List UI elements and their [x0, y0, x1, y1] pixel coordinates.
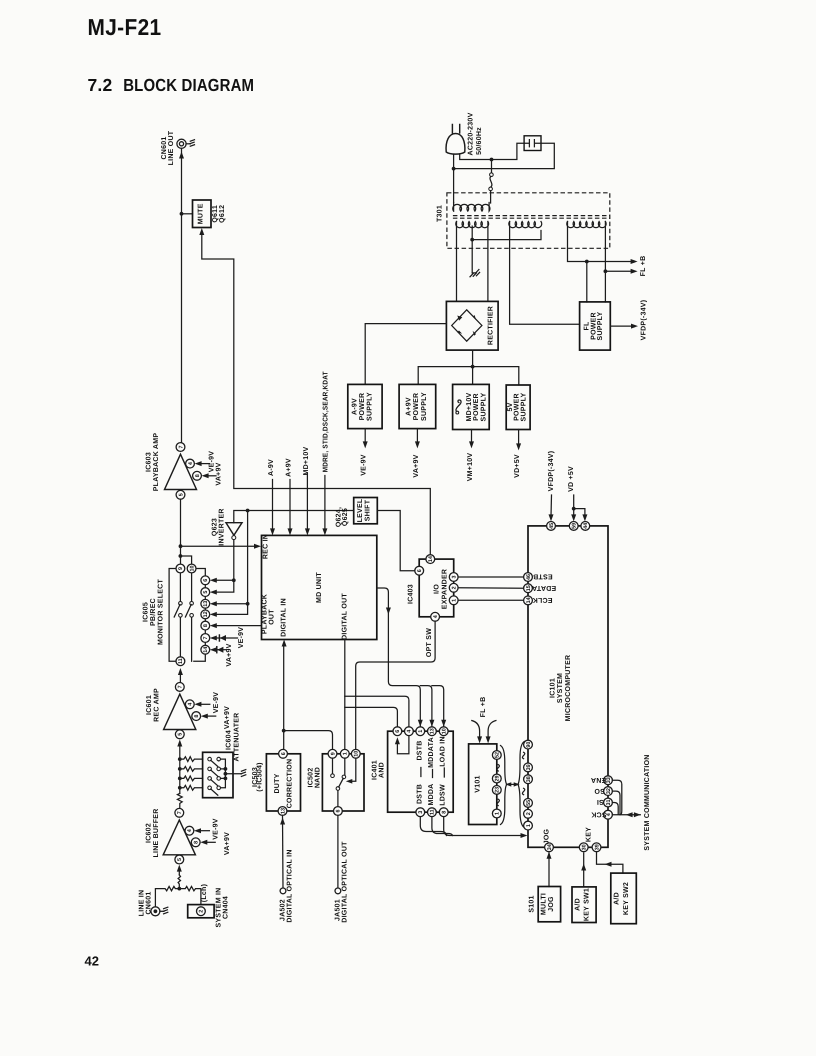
- pin 31 SI: [597, 798, 613, 807]
- wire IC601 out to pin11: [179, 672, 181, 683]
- pin 4 of IC401: [405, 727, 414, 736]
- pin 3 of IC401: [416, 808, 425, 817]
- pin 6 of IC401: [393, 727, 402, 736]
- A+9V power supply box: [399, 384, 436, 428]
- svg-text:39: 39: [594, 844, 600, 850]
- svg-text:2: 2: [452, 586, 458, 589]
- svg-text:23: 23: [495, 787, 501, 793]
- wire pin8 to IC101 key bus: [444, 817, 523, 836]
- svg-text:5: 5: [203, 591, 209, 594]
- wire digital in from IC503 pin6: [283, 645, 285, 749]
- wire IC605 right bracket: [180, 569, 205, 662]
- svg-text:2: 2: [526, 812, 532, 815]
- wire digital out branch to IC401 pin4: [345, 696, 409, 727]
- wire A/D key sw2 to pin39: [597, 852, 623, 873]
- ground (line in): [163, 907, 168, 914]
- resistor R to line-in connector: [155, 886, 179, 906]
- svg-text:DUTY: DUTY: [274, 773, 281, 793]
- pin 6 of IC503: [279, 749, 288, 758]
- wire VD+5V into pins 59,44: [568, 466, 587, 521]
- svg-text:A+9V: A+9V: [406, 397, 413, 416]
- svg-text:SUPPLY: SUPPLY: [520, 392, 527, 421]
- wire pin3 to IC101 key bus: [420, 817, 446, 836]
- arrow output VA+9V: [416, 429, 418, 443]
- wire pin33 bundle: [612, 780, 621, 815]
- svg-text:KEY SW1: KEY SW1: [583, 888, 590, 921]
- attenuator tap nodes: [178, 757, 182, 790]
- svg-text:BLOCK DIAGRAM: BLOCK DIAGRAM: [123, 75, 254, 95]
- svg-text:2: 2: [199, 910, 205, 913]
- pin 10 of IC401: [439, 727, 448, 736]
- svg-text:JA501: JA501: [334, 899, 341, 921]
- switch SW-A of IC605: [174, 602, 182, 618]
- label IC502 NAND: [308, 767, 322, 788]
- svg-text:MD UNIT: MD UNIT: [316, 572, 323, 603]
- svg-text:Q625: Q625: [342, 508, 349, 526]
- wire monitor line to pins 13,12: [214, 511, 248, 615]
- connector CN601 LINE IN: [151, 907, 164, 916]
- wire digital out branch to IC401 pin6: [345, 707, 398, 726]
- dash links: [421, 768, 444, 778]
- svg-text:32: 32: [606, 788, 612, 794]
- svg-text:Q611: Q611: [212, 205, 219, 223]
- svg-text:8: 8: [193, 841, 199, 844]
- wire VA+9V into pin8: [205, 475, 216, 477]
- svg-text:7: 7: [178, 446, 184, 449]
- pin 44 of IC101: [581, 522, 590, 531]
- pin 34 JOG: [544, 828, 554, 851]
- svg-text:8: 8: [195, 474, 201, 477]
- svg-text:EXPANDER: EXPANDER: [442, 569, 449, 609]
- wire MDRE bus into MD: [324, 476, 326, 531]
- svg-text:9: 9: [330, 752, 336, 755]
- wire JA502 to pin13: [282, 815, 285, 888]
- svg-text:MJ-F21: MJ-F21: [88, 14, 162, 40]
- pin 3 of IC403: [449, 573, 458, 582]
- resistor R row1: [180, 757, 203, 762]
- svg-text:6: 6: [281, 752, 287, 755]
- svg-text:IC602: IC602: [146, 823, 153, 843]
- pin 6 of IC502: [334, 807, 343, 816]
- pin 5 of IC605: [201, 588, 210, 597]
- svg-text:52: 52: [495, 752, 501, 758]
- node inverter/monitor branch: [246, 509, 250, 513]
- arrow output VM+10V: [471, 430, 473, 444]
- diode D pin14 VA+9V: [210, 643, 233, 666]
- wire pin11 to IC101 key bus: [432, 817, 453, 836]
- svg-text:VA+9V: VA+9V: [216, 462, 223, 485]
- switches inside IC604: [208, 757, 221, 795]
- svg-text:ATTENUATER: ATTENUATER: [233, 713, 240, 762]
- svg-text:SHIFT: SHIFT: [365, 499, 372, 521]
- wire VE-9V into IC601 pin4: [198, 703, 210, 705]
- resistor R to system-in: [179, 886, 201, 904]
- rectifier box: [446, 301, 498, 350]
- wire VA+9V into IC602 pin8: [204, 841, 216, 843]
- label DUTY CORRECTION: [274, 759, 294, 809]
- svg-text:VA+9V: VA+9V: [226, 643, 233, 666]
- svg-text:FL +B: FL +B: [640, 256, 647, 277]
- svg-text:VD +5V: VD +5V: [568, 466, 575, 492]
- svg-text:VA+9V: VA+9V: [413, 454, 420, 477]
- svg-text:45: 45: [549, 523, 555, 529]
- secondary winding S2: [509, 222, 542, 228]
- svg-text:LEVEL: LEVEL: [357, 498, 364, 522]
- svg-text:42: 42: [85, 953, 99, 968]
- svg-text:DIGITAL IN: DIGITAL IN: [281, 598, 288, 637]
- svg-text:SUPPLY: SUPPLY: [421, 392, 428, 421]
- svg-text:OUT: OUT: [268, 609, 275, 625]
- rectifier bridge diamond: [452, 310, 482, 341]
- pin 8 of IC605: [201, 621, 210, 630]
- node pin10 branch: [179, 554, 192, 564]
- wire plug right to fuse loop: [454, 143, 555, 168]
- wire switch commons to ground bus: [221, 759, 242, 788]
- svg-text:7: 7: [177, 811, 183, 814]
- IC401 AND box: [388, 731, 454, 812]
- svg-text:VFDP(-34V): VFDP(-34V): [547, 451, 555, 492]
- svg-text:14: 14: [203, 647, 209, 653]
- pin 10 of IC605: [187, 564, 196, 573]
- wire plug left to primary: [453, 155, 455, 203]
- pin 10 of IC502: [351, 749, 360, 758]
- svg-text:MUTE: MUTE: [198, 203, 205, 224]
- svg-text:38: 38: [526, 776, 532, 782]
- tilde V101 lower: [497, 799, 499, 805]
- wire MD digital out down to IC502 pin1: [344, 640, 346, 750]
- svg-text:1: 1: [495, 812, 501, 815]
- svg-text:ECLK: ECLK: [532, 596, 552, 603]
- pin 32 SO: [594, 787, 613, 796]
- svg-text:4: 4: [407, 730, 413, 733]
- svg-text:90: 90: [526, 742, 532, 748]
- svg-text:MDDATA: MDDATA: [428, 737, 435, 768]
- connector CN601 LINE OUT: [177, 139, 190, 148]
- wire inverter output to pins 6,5: [214, 540, 234, 593]
- svg-text:REC IN: REC IN: [262, 534, 269, 559]
- resistor R row2: [180, 767, 203, 772]
- label IC601 REC AMP: [146, 688, 161, 722]
- wire pin32 bundle: [612, 791, 620, 814]
- svg-text:7: 7: [178, 685, 184, 688]
- svg-text:MD+10V: MD+10V: [466, 392, 473, 421]
- svg-text:CN601: CN601: [146, 891, 153, 914]
- wire A+9V into MD: [289, 480, 291, 531]
- label Q611 Q612: [212, 205, 226, 223]
- label IC604 ATTENUATER: [225, 713, 240, 762]
- svg-text:7: 7: [203, 637, 209, 640]
- IC503 duty correction box: [266, 754, 300, 811]
- pin 14 ECLK: [524, 596, 553, 605]
- svg-text:AND: AND: [378, 762, 385, 778]
- wire VE-9V into IC602 pin4: [197, 830, 209, 832]
- pin 29 of V101: [492, 774, 501, 783]
- pin 15 EDATA: [524, 584, 557, 593]
- svg-text:IC403: IC403: [408, 584, 415, 604]
- label JA502 DIGITAL OPTICAL IN: [279, 849, 293, 922]
- wire MD right edge to IC401 pins bus: [377, 588, 421, 727]
- wire rectifier left output to A-9V supply: [365, 324, 446, 385]
- arrow output VD+5V: [518, 430, 520, 446]
- svg-text:DIGITAL OUT: DIGITAL OUT: [342, 593, 349, 640]
- svg-text:30: 30: [582, 844, 588, 850]
- label IC603 PLAYBACK AMP: [146, 433, 161, 492]
- wire pin31 bundle: [612, 803, 618, 815]
- pin 38 of IC101: [524, 775, 533, 784]
- pin 39 KEY2: [592, 843, 601, 852]
- wire pin4 loop into pin6: [397, 736, 409, 754]
- pin 9 of IC605: [176, 564, 185, 573]
- svg-text:MD+10V: MD+10V: [303, 446, 310, 475]
- node rec in tap: [179, 544, 183, 548]
- svg-text:CORRECTION: CORRECTION: [286, 759, 293, 809]
- svg-text:4: 4: [188, 703, 194, 706]
- svg-text:IC604: IC604: [225, 730, 232, 750]
- svg-text:5: 5: [178, 733, 184, 736]
- svg-text:SUPPLY: SUPPLY: [480, 392, 487, 421]
- wire pin5 down to rec-in node: [180, 499, 182, 568]
- switch inside IC502: [331, 758, 356, 806]
- wire playback out from MD to pin8: [214, 625, 262, 627]
- label FL+B into V101: [472, 697, 496, 744]
- wire VE-9V into pin4: [198, 463, 210, 465]
- svg-text:14: 14: [526, 597, 532, 603]
- svg-text:Q623: Q623: [212, 518, 219, 536]
- svg-text:RECTIFIER: RECTIFIER: [488, 306, 495, 345]
- pin 45 of IC101: [547, 522, 556, 531]
- svg-text:AC220-230V: AC220-230V: [468, 112, 475, 155]
- node S3 right to FL supply input2: [604, 269, 608, 273]
- wire VFDP(-34V) into pin45: [547, 451, 555, 522]
- svg-text:13: 13: [203, 601, 209, 607]
- svg-text:A+9V: A+9V: [286, 458, 293, 477]
- svg-text:DIGITAL OPTICAL IN: DIGITAL OPTICAL IN: [286, 849, 293, 922]
- wire S3 left to FL+B arrow: [568, 222, 634, 262]
- svg-text:8: 8: [203, 624, 209, 627]
- pin 2 of IC403: [449, 583, 458, 592]
- svg-text:(+IC504): (+IC504): [255, 762, 263, 791]
- wire pin6 to JA501: [337, 815, 339, 888]
- resistor R row4: [180, 785, 203, 790]
- svg-text:DSTB: DSTB: [416, 740, 423, 760]
- arrow into mute box: [199, 228, 204, 235]
- level shift box Q624 Q625: [354, 498, 378, 524]
- svg-text:SUPPLY: SUPPLY: [367, 392, 374, 421]
- node S3 to FL supply input1: [585, 260, 589, 264]
- svg-text:5: 5: [178, 493, 184, 496]
- svg-text:LINE OUT: LINE OUT: [168, 130, 175, 165]
- svg-text:POWER: POWER: [359, 393, 366, 421]
- svg-text:4: 4: [433, 615, 439, 618]
- svg-text:50/60Hz: 50/60Hz: [475, 127, 483, 155]
- wire VA+9V into IC601 pin8: [204, 715, 216, 717]
- label IC605 PB/REC MONITOR SELECT: [143, 579, 165, 645]
- pin 90 of IC101: [524, 740, 533, 749]
- pin 8 of IC401: [439, 808, 448, 817]
- op-amp IC602 line buffer: [163, 808, 200, 864]
- svg-text:REC AMP: REC AMP: [154, 688, 161, 722]
- tilde IC101 upper: [522, 752, 524, 758]
- tilde IC101 lower: [522, 788, 524, 794]
- wire S1 tap to S2 right: [472, 231, 541, 240]
- secondary winding S3: [567, 222, 606, 228]
- label LINE IN CN601: [139, 890, 153, 917]
- pin 11 of IC401: [428, 808, 437, 817]
- box A/D KEY SW1: [572, 887, 596, 923]
- pin 2 of IC101: [524, 809, 533, 818]
- svg-text:VE-9V: VE-9V: [213, 692, 220, 714]
- wire S101 multi jog to pin34: [548, 853, 550, 887]
- svg-text:MICROCOMPUTER: MICROCOMPUTER: [565, 655, 572, 722]
- svg-text:JA502: JA502: [279, 899, 286, 921]
- mute box Q611 Q612: [193, 200, 212, 228]
- label PLAYBACK OUT: [262, 594, 276, 634]
- svg-text:44: 44: [583, 523, 589, 529]
- pin 9 of IC502: [328, 749, 337, 758]
- wire A/D key sw1 to pin30: [583, 853, 585, 887]
- svg-text:IC101: IC101: [550, 678, 557, 698]
- svg-text:VA+9V: VA+9V: [224, 832, 231, 855]
- V101 display box: [469, 744, 497, 825]
- svg-text:DIGITAL OPTICAL OUT: DIGITAL OPTICAL OUT: [341, 841, 348, 923]
- MD+10V power supply box: [453, 384, 490, 429]
- svg-text:S101: S101: [528, 895, 535, 912]
- svg-text:31: 31: [606, 800, 612, 806]
- attenuator IC604 box: [203, 752, 233, 797]
- pin 33 ENA: [591, 776, 613, 785]
- pin 23 of V101: [492, 786, 501, 795]
- pin 55 of IC101: [524, 799, 533, 808]
- node mute branch: [180, 212, 184, 216]
- svg-text:1: 1: [418, 730, 424, 733]
- wire A-9V into MD: [272, 480, 274, 531]
- svg-text:INVERTER: INVERTER: [219, 508, 226, 545]
- wire branch to IC502 pin9: [284, 731, 333, 750]
- svg-text:VA+9V: VA+9V: [224, 706, 231, 729]
- svg-text:11: 11: [178, 658, 184, 664]
- svg-text:JOG: JOG: [548, 896, 555, 912]
- pin 39 of IC101 left: [524, 763, 533, 772]
- svg-text:V101: V101: [475, 775, 482, 792]
- svg-text:IC502: IC502: [308, 768, 315, 788]
- svg-text:SCK: SCK: [591, 810, 607, 817]
- node rectifier output bus: [471, 365, 475, 369]
- arrow system comm right: [634, 812, 641, 817]
- svg-text:FL +B: FL +B: [480, 697, 487, 718]
- svg-text:VE-9V: VE-9V: [238, 627, 245, 649]
- svg-text:T301: T301: [437, 205, 444, 222]
- ground (line out): [190, 140, 195, 147]
- connector JA502: [280, 888, 286, 894]
- 5V power supply box: [506, 385, 530, 430]
- svg-text:6: 6: [417, 569, 423, 572]
- AC plug: [446, 125, 465, 155]
- label CN601 LINE OUT: [161, 130, 175, 165]
- pin 14 of IC403: [426, 555, 435, 564]
- node line in junction: [177, 887, 181, 891]
- svg-text:ESTB: ESTB: [533, 573, 553, 580]
- svg-text:KEY SW2: KEY SW2: [623, 882, 630, 915]
- wire to mute box: [182, 213, 193, 215]
- node plug-left / fuse return junction: [452, 167, 456, 171]
- A-9V power supply box: [348, 384, 382, 428]
- svg-text:55: 55: [526, 800, 532, 806]
- svg-text:8: 8: [194, 715, 200, 718]
- wire inverter input from level shift line: [234, 511, 354, 523]
- wire SCK system communication: [612, 814, 640, 816]
- bus link V101 to IC101: [508, 783, 517, 785]
- svg-text:9: 9: [178, 567, 184, 570]
- node plug-right junction: [490, 158, 494, 162]
- svg-text:JOG: JOG: [544, 828, 551, 844]
- svg-text:59: 59: [572, 523, 578, 529]
- svg-text:8: 8: [442, 811, 448, 814]
- svg-text:6: 6: [336, 810, 342, 813]
- pin 1 of V101: [492, 809, 501, 818]
- svg-text:DSTB: DSTB: [416, 784, 423, 804]
- switch SW-B of IC605: [185, 602, 193, 618]
- svg-text:VFDP(-34V): VFDP(-34V): [640, 300, 648, 341]
- pin 59 of IC101: [569, 522, 578, 531]
- inverter Q623: [226, 523, 242, 540]
- svg-text:KEY: KEY: [585, 827, 592, 842]
- label IC401 AND: [372, 760, 386, 780]
- svg-text:12: 12: [203, 611, 209, 617]
- pin 30 KEY: [579, 827, 592, 852]
- pin 13 of IC503: [278, 807, 287, 816]
- svg-text:ENA: ENA: [591, 776, 607, 783]
- svg-text:SYSTEM IN: SYSTEM IN: [215, 888, 222, 928]
- arrow system comm left: [626, 812, 633, 817]
- wire MD+10V into MD: [306, 474, 308, 531]
- label AC220-230V 50/60Hz: [468, 112, 484, 155]
- svg-text:SUPPLY: SUPPLY: [597, 311, 604, 340]
- connector JA501: [335, 888, 341, 894]
- transformer T301 dashed box: [447, 193, 610, 249]
- svg-text:MULTI: MULTI: [540, 893, 547, 915]
- svg-text:3: 3: [418, 811, 424, 814]
- pin 11 of IC605: [176, 657, 185, 666]
- svg-text:EDATA: EDATA: [532, 584, 556, 591]
- svg-text:5: 5: [177, 858, 183, 861]
- svg-text:(Lch): (Lch): [200, 884, 208, 902]
- pin 1 of IC403: [449, 596, 458, 605]
- svg-text:SYSTEM: SYSTEM: [557, 673, 564, 703]
- IC101 system microcomputer box: [528, 526, 608, 847]
- svg-text:A-9V: A-9V: [268, 459, 275, 476]
- svg-text:VE-9V: VE-9V: [213, 818, 220, 840]
- wire OPT SW IC403 pin4 to IC502 pin10: [356, 621, 435, 749]
- svg-text:Q612: Q612: [219, 205, 226, 223]
- wire bus branch to IC401 pin13: [420, 686, 432, 727]
- wire IC605 left bracket: [169, 569, 175, 662]
- arrow into IC101 left edge: [521, 833, 528, 838]
- arrow into IC401 pin1: [418, 720, 423, 727]
- svg-text:MONITOR SELECT: MONITOR SELECT: [158, 579, 165, 645]
- wire FL supply output VFDP: [610, 325, 633, 327]
- svg-text:CN601: CN601: [161, 136, 168, 159]
- pin 6 of IC605: [201, 576, 210, 585]
- label Q623 INVERTER: [212, 508, 226, 545]
- svg-text:10: 10: [354, 751, 360, 757]
- svg-text:IC603: IC603: [146, 452, 153, 472]
- svg-text:VE-9V: VE-9V: [209, 451, 216, 473]
- tilde V101 upper: [497, 765, 499, 771]
- svg-text:LDSW: LDSW: [440, 784, 447, 806]
- pin 46 ESTB: [524, 573, 553, 582]
- pin 6 of IC403: [415, 566, 424, 575]
- diode D pin7 VE-9V: [210, 627, 245, 649]
